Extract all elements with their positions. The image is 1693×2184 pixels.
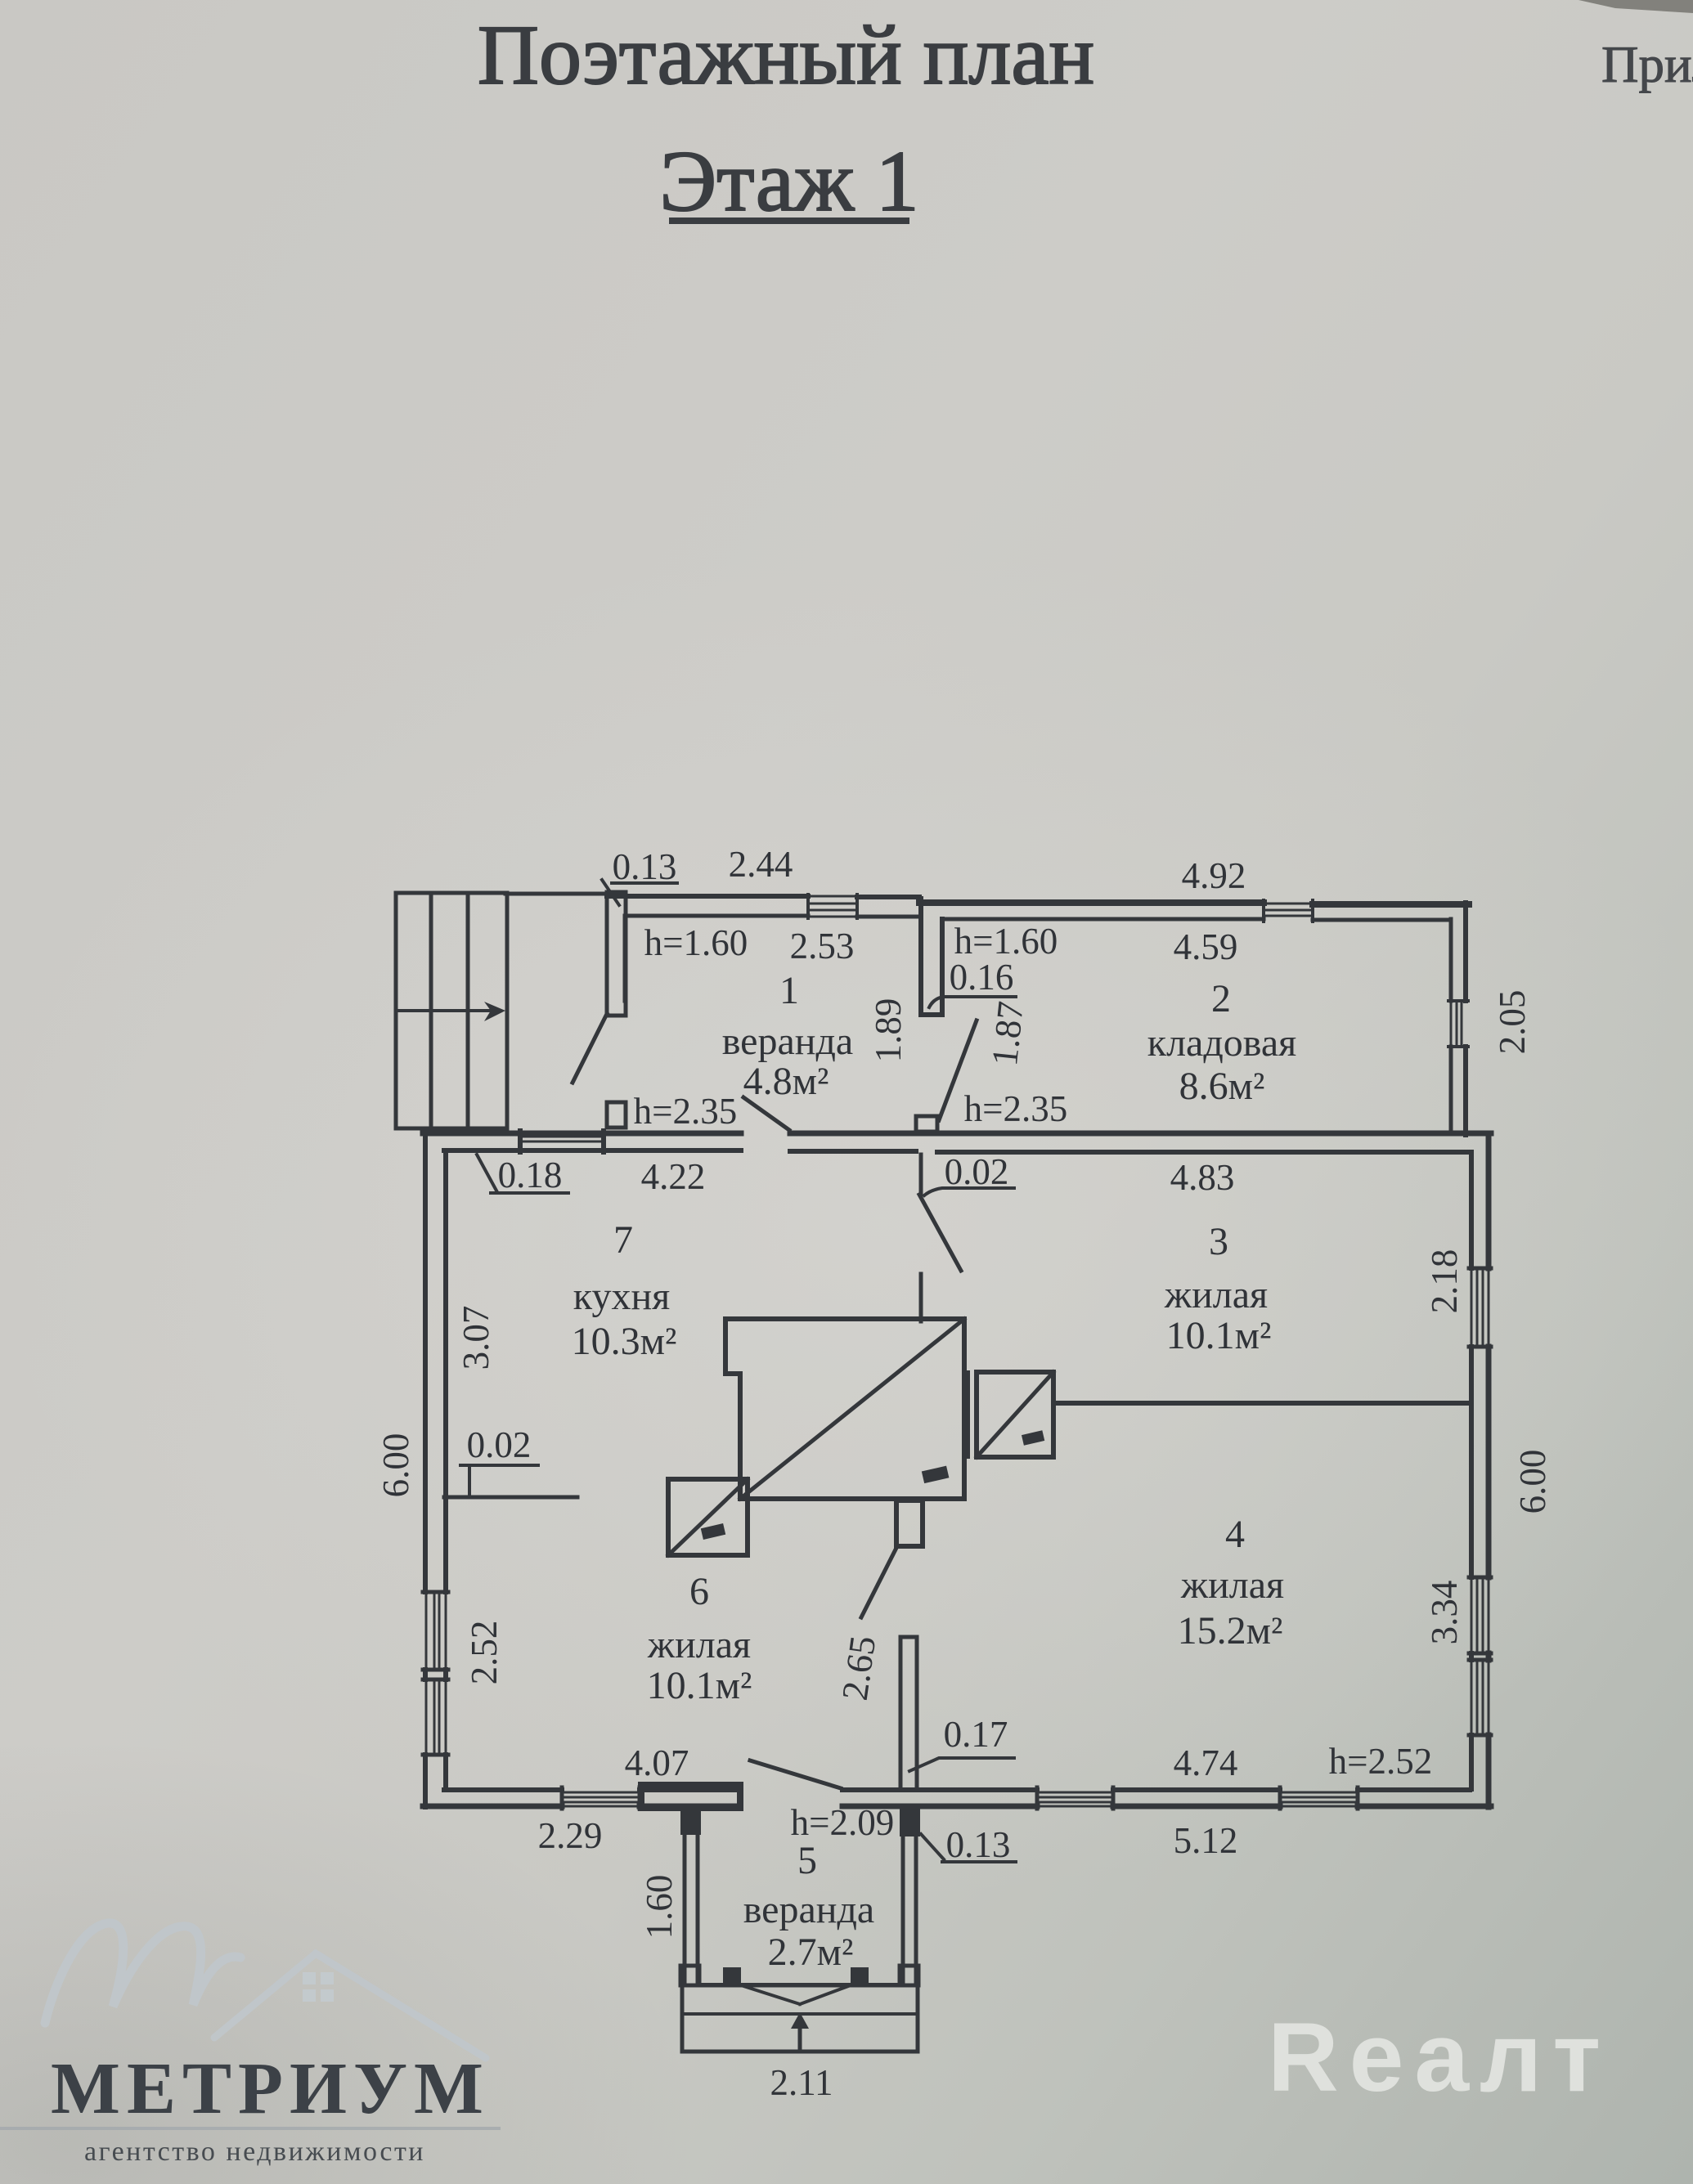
stair direction arrow head xyxy=(484,1002,505,1021)
svg-text:0.13: 0.13 xyxy=(946,1824,1011,1865)
svg-text:4.8м²: 4.8м² xyxy=(743,1060,829,1103)
window 2 in left wall xyxy=(426,1679,446,1755)
stair tread line 1 xyxy=(429,893,433,1128)
leader and underline of dim 0.17 xyxy=(909,1758,1014,1771)
svg-text:жилая: жилая xyxy=(1164,1273,1268,1316)
Metrium logo house window xyxy=(303,1972,334,2002)
right outer wall outer line xyxy=(1486,1133,1492,1807)
partition rooms 3 / 4 xyxy=(1054,1401,1471,1406)
svg-text:0.18: 0.18 xyxy=(498,1155,563,1195)
svg-text:2.7м²: 2.7м² xyxy=(768,1931,854,1974)
veranda 5 right wall xyxy=(903,1809,916,1985)
svg-text:МЕТРИУМ: МЕТРИУМ xyxy=(51,2048,490,2129)
кладовая door leaf xyxy=(939,1020,977,1120)
porch step line xyxy=(682,2012,918,2016)
right small stove flue mark xyxy=(1022,1430,1044,1446)
door jamb wall piece (0.13) left of veranda 1 xyxy=(607,892,626,1016)
svg-text:3.34: 3.34 xyxy=(1424,1581,1465,1645)
svg-text:0.16: 0.16 xyxy=(950,957,1014,998)
right outer wall inner line xyxy=(1469,1152,1474,1789)
stair tread line 2 xyxy=(466,893,470,1128)
window 2b in right wall xyxy=(1471,1660,1489,1735)
svg-text:жилая: жилая xyxy=(1180,1563,1284,1607)
svg-text:агентство недвижимости: агентство недвижимости xyxy=(84,2137,425,2167)
rule line under МЕТРИУМ xyxy=(0,2127,501,2130)
dark photo edge sliver top right corner xyxy=(1578,0,1693,13)
svg-text:6.00: 6.00 xyxy=(1512,1450,1553,1514)
leader and underline of dim 0.13 bottom xyxy=(921,1834,1016,1862)
кладовая top wall outer line xyxy=(919,903,1469,904)
svg-text:4.22: 4.22 xyxy=(641,1156,706,1197)
room 6 small stove outline xyxy=(668,1479,748,1555)
svg-text:2.29: 2.29 xyxy=(538,1815,603,1856)
svg-text:6: 6 xyxy=(689,1570,709,1613)
svg-text:Поэтажный план: Поэтажный план xyxy=(478,8,1094,102)
main house top wall outer line xyxy=(423,1131,1491,1137)
svg-text:h=2.52: h=2.52 xyxy=(1329,1741,1433,1782)
big stove flue mark xyxy=(922,1466,950,1484)
svg-text:1.60: 1.60 xyxy=(639,1875,680,1940)
door leaf hall to room 4 xyxy=(861,1548,896,1617)
кладовая right wall inner line xyxy=(1449,919,1453,1132)
stair mid landing line xyxy=(396,1009,491,1012)
chimney block below big stove xyxy=(896,1500,923,1546)
svg-text:0.02: 0.02 xyxy=(467,1424,532,1465)
door leaf at hallway near 0.02 xyxy=(919,1195,961,1271)
veranda 1 top wall inner line xyxy=(626,916,919,917)
bottom wall outer line xyxy=(423,1804,1491,1810)
door post of kitchen door h=2.35 xyxy=(607,1102,626,1128)
svg-text:веранда: веранда xyxy=(722,1020,853,1063)
window in кладовая top wall xyxy=(1264,904,1313,916)
svg-text:5: 5 xyxy=(797,1839,817,1882)
big stove outline xyxy=(725,1319,964,1499)
svg-text:10.3м²: 10.3м² xyxy=(572,1320,677,1363)
svg-text:0.02: 0.02 xyxy=(945,1151,1009,1192)
svg-text:2.05: 2.05 xyxy=(1492,990,1533,1055)
svg-text:2: 2 xyxy=(1211,977,1231,1020)
svg-text:h=1.60: h=1.60 xyxy=(644,922,748,963)
svg-text:1: 1 xyxy=(779,969,799,1012)
room 6 small stove flue mark xyxy=(701,1523,725,1540)
veranda 5 right wall top post xyxy=(900,1809,920,1836)
svg-text:жилая: жилая xyxy=(647,1623,751,1666)
room 6 small stove diagonal xyxy=(668,1479,748,1555)
underline under Этаж 1 xyxy=(669,218,909,224)
big stove diagonal xyxy=(740,1319,964,1499)
stairs outline xyxy=(396,893,507,1128)
svg-text:h=2.35: h=2.35 xyxy=(964,1088,1068,1129)
porch outline xyxy=(682,1985,918,2052)
tick and underline of dim 0.02 left xyxy=(460,1465,538,1497)
svg-text:4: 4 xyxy=(1225,1513,1245,1556)
window 1 in left wall xyxy=(426,1592,446,1670)
Metrium logo house roof xyxy=(214,1953,486,2058)
door leaf of veranda-kitchen door xyxy=(743,1097,789,1130)
кладовая left wall xyxy=(921,899,942,1015)
svg-text:10.1м²: 10.1м² xyxy=(1166,1314,1272,1357)
veranda 1 top wall outer line xyxy=(607,896,919,897)
кладовая top wall inner line xyxy=(945,919,1449,920)
svg-text:2.18: 2.18 xyxy=(1424,1249,1465,1314)
door swing right leaf xyxy=(800,1985,851,2004)
svg-text:4.07: 4.07 xyxy=(625,1742,689,1783)
window 3 in bottom wall xyxy=(1280,1792,1358,1806)
svg-text:15.2м²: 15.2м² xyxy=(1178,1609,1283,1653)
post on sill left xyxy=(723,1967,741,1985)
кладовая right wall outer line xyxy=(1463,903,1468,1135)
svg-text:4.92: 4.92 xyxy=(1182,855,1246,896)
bottom wall inner line xyxy=(444,1787,1470,1792)
veranda 5 left wall bottom post xyxy=(680,1966,699,1985)
svg-text:3: 3 xyxy=(1209,1220,1228,1263)
left outer wall inner line xyxy=(443,1150,448,1789)
stub wall above big stove xyxy=(919,1274,923,1321)
right small stove outline xyxy=(977,1372,1053,1457)
Metrium logo squiggle xyxy=(45,1923,240,2023)
svg-text:10.1м²: 10.1м² xyxy=(647,1664,752,1707)
svg-text:Прило: Прило xyxy=(1601,36,1693,93)
svg-text:0.17: 0.17 xyxy=(944,1714,1008,1755)
svg-text:7: 7 xyxy=(613,1218,633,1262)
door leaf of entrance to veranda 1 xyxy=(573,1014,607,1083)
right small stove diagonal xyxy=(977,1372,1053,1457)
underline of dim 0.13 xyxy=(612,881,677,885)
window in top wall (kitchen) xyxy=(523,1137,601,1141)
window in кладовая right wall xyxy=(1451,1001,1462,1047)
svg-text:2.65: 2.65 xyxy=(834,1634,883,1703)
post on sill right xyxy=(851,1967,869,1985)
svg-text:h=1.60: h=1.60 xyxy=(954,921,1058,962)
partition kitchen / room 6 xyxy=(444,1496,577,1500)
svg-text:h=2.35: h=2.35 xyxy=(634,1091,738,1132)
window 1 in right wall xyxy=(1471,1268,1489,1347)
window 2 in bottom wall xyxy=(1037,1792,1113,1806)
svg-text:1.87: 1.87 xyxy=(984,999,1031,1068)
svg-text:2.44: 2.44 xyxy=(729,844,793,885)
svg-text:1.89: 1.89 xyxy=(868,998,909,1063)
svg-text:2.52: 2.52 xyxy=(464,1621,505,1685)
veranda 1 inner left wall line xyxy=(623,916,627,1001)
left outer wall outer line xyxy=(423,1131,428,1807)
svg-text:2.11: 2.11 xyxy=(770,2062,833,2103)
svg-text:Reaлт: Reaлт xyxy=(1268,2002,1611,2112)
porch arrow xyxy=(798,2025,802,2048)
svg-text:3.07: 3.07 xyxy=(456,1306,496,1370)
tick of dim 0.02 right xyxy=(919,1155,923,1195)
underline of dim 0.02 right xyxy=(924,1188,1014,1195)
svg-text:веранда: веранда xyxy=(743,1888,874,1931)
svg-text:Этаж 1: Этаж 1 xyxy=(659,133,918,229)
veranda 5 left wall top post xyxy=(680,1809,701,1835)
window 1 in bottom wall xyxy=(562,1792,640,1806)
svg-text:кладовая: кладовая xyxy=(1147,1021,1296,1065)
veranda 5 left wall xyxy=(685,1809,698,1985)
main house top wall inner line xyxy=(444,1150,1470,1152)
stove connector line xyxy=(967,1372,970,1457)
svg-text:2.53: 2.53 xyxy=(790,926,855,966)
partition hall / room 4 xyxy=(900,1637,917,1789)
door swing left leaf xyxy=(741,1985,800,2004)
svg-text:0.13: 0.13 xyxy=(613,846,677,887)
svg-text:6.00: 6.00 xyxy=(375,1433,416,1498)
veranda 5 sill line xyxy=(699,1983,903,1986)
svg-text:4.74: 4.74 xyxy=(1174,1742,1238,1783)
svg-text:8.6м²: 8.6м² xyxy=(1179,1065,1265,1108)
porch door block in bottom wall xyxy=(641,1785,740,1808)
door leaf of room 6 entrance xyxy=(750,1760,841,1788)
svg-text:5.12: 5.12 xyxy=(1174,1820,1238,1861)
door post on top wall near кладовая xyxy=(916,1116,937,1132)
leader and underline of dim 0.16 xyxy=(929,997,1016,1007)
svg-text:4.83: 4.83 xyxy=(1170,1157,1235,1198)
svg-text:кухня: кухня xyxy=(573,1275,670,1318)
window 2a in right wall xyxy=(1471,1577,1489,1653)
svg-text:h=2.09: h=2.09 xyxy=(791,1802,895,1843)
wire: top wall line from stairs to veranda door jamb xyxy=(505,892,607,896)
leader of dim 0.18 xyxy=(477,1155,568,1193)
veranda 5 right wall bottom post xyxy=(900,1966,918,1985)
svg-text:4.59: 4.59 xyxy=(1174,926,1238,967)
window in veranda 1 top wall xyxy=(808,896,857,917)
dimension tick for 0.13 xyxy=(602,880,619,905)
